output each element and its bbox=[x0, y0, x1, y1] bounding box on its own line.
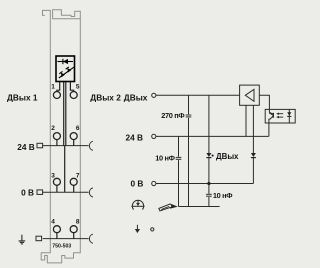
svg-text:24 В: 24 В bbox=[17, 142, 35, 152]
svg-text:5: 5 bbox=[76, 83, 80, 90]
svg-text:ДВых 1: ДВых 1 bbox=[7, 93, 38, 103]
svg-text:8: 8 bbox=[76, 218, 80, 225]
svg-text:2: 2 bbox=[51, 125, 55, 132]
svg-text:0 В: 0 В bbox=[21, 188, 34, 198]
svg-text:4: 4 bbox=[51, 218, 55, 225]
svg-text:ДВых: ДВых bbox=[124, 93, 148, 103]
svg-text:3: 3 bbox=[51, 173, 55, 180]
svg-text:0 В: 0 В bbox=[130, 179, 143, 189]
svg-text:10 нФ: 10 нФ bbox=[213, 191, 233, 200]
svg-text:ДВых: ДВых bbox=[216, 152, 239, 161]
svg-text:6: 6 bbox=[76, 125, 80, 132]
svg-text:1: 1 bbox=[51, 83, 55, 90]
svg-text:10 нФ: 10 нФ bbox=[155, 154, 175, 163]
svg-text:750-503: 750-503 bbox=[52, 244, 71, 250]
svg-text:24 В: 24 В bbox=[125, 132, 143, 142]
svg-text:270 пФ: 270 пФ bbox=[161, 111, 185, 120]
svg-text:7: 7 bbox=[76, 173, 80, 180]
svg-text:ДВых 2: ДВых 2 bbox=[90, 93, 121, 103]
